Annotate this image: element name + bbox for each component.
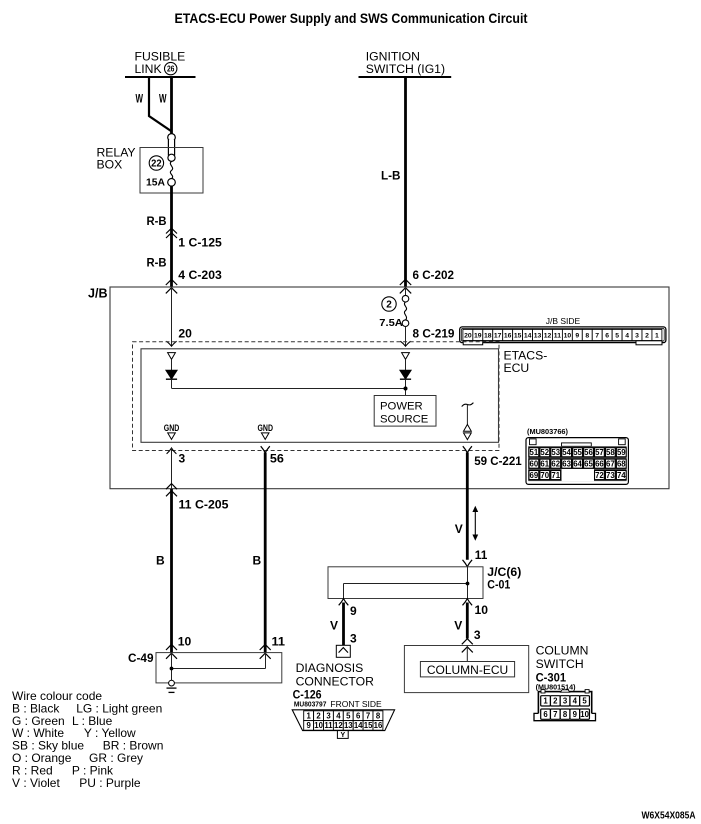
svg-text:8: 8 <box>585 333 589 340</box>
diagnosis connector pin grid row 2 <box>304 721 383 731</box>
wire diode2 down <box>405 379 407 395</box>
svg-text:B: B <box>253 554 262 568</box>
J/B box <box>110 287 669 489</box>
svg-text:10: 10 <box>475 603 489 617</box>
wire W left branch <box>149 78 171 131</box>
svg-text:59: 59 <box>617 448 626 457</box>
svg-text:4: 4 <box>625 333 629 340</box>
svg-text:11: 11 <box>324 721 333 730</box>
relay box label <box>97 146 136 172</box>
svg-text:73: 73 <box>606 471 615 480</box>
wire from relay box down to J/B <box>170 186 173 287</box>
svg-text:18: 18 <box>484 333 492 340</box>
fusible link bus bar <box>125 76 196 78</box>
ETACS-ECU label <box>504 349 548 375</box>
svg-text:26: 26 <box>167 65 175 74</box>
J/C pin 11 terminal cup <box>463 560 473 567</box>
svg-text:POWER: POWER <box>380 401 423 413</box>
svg-text:V: V <box>455 522 463 536</box>
J/C pin 9 exit cup <box>339 599 349 606</box>
svg-text:DIAGNOSIS: DIAGNOSIS <box>296 661 364 675</box>
connector MU803766 body <box>526 438 628 485</box>
fuse number 22 circled <box>149 156 163 170</box>
svg-text:67: 67 <box>606 460 615 469</box>
svg-text:3: 3 <box>326 711 331 720</box>
SWS comm line symbol <box>462 403 474 440</box>
svg-text:CONNECTOR: CONNECTOR <box>296 675 375 689</box>
connector C-203 chevrons at J/B edge <box>166 279 177 293</box>
wire colour code legend <box>12 689 163 790</box>
fusible link symbol middle circle <box>168 154 175 161</box>
wire W right (main) <box>170 78 173 134</box>
diagnosis connector trapezoid <box>292 710 394 731</box>
wire pin6 to fuse 2 inside J/B <box>405 287 407 296</box>
svg-text:4 C-203: 4 C-203 <box>178 268 222 282</box>
svg-text:V: V <box>454 618 462 632</box>
svg-text:10: 10 <box>314 721 323 730</box>
J/B side connector pin numbers <box>464 333 659 340</box>
connector MU803766 pin numbers <box>530 448 627 480</box>
svg-text:3: 3 <box>635 333 639 340</box>
diagnosis connector symbol <box>336 645 350 657</box>
C-49 entry chevrons pin 10 <box>166 644 177 658</box>
svg-text:16: 16 <box>374 721 383 730</box>
J/B side connector outline <box>460 327 666 345</box>
fusible link symbol parallel lines <box>168 140 174 156</box>
connector MU803766 pin row 2 <box>529 459 626 468</box>
svg-text:14: 14 <box>524 333 532 340</box>
svg-text:7.5A: 7.5A <box>379 317 403 329</box>
svg-text:16: 16 <box>504 333 512 340</box>
svg-text:20: 20 <box>464 333 472 340</box>
fusible link symbol top circle <box>168 134 176 142</box>
svg-text:52: 52 <box>540 448 549 457</box>
svg-text:56: 56 <box>584 448 593 457</box>
svg-text:COLUMN-ECU: COLUMN-ECU <box>427 663 508 677</box>
svg-text:4: 4 <box>336 711 341 720</box>
J/C pin 10 exit cup <box>463 599 473 606</box>
C-49 entry chevrons pin 11 <box>260 644 271 658</box>
pin 8 input triangle <box>402 353 410 360</box>
svg-text:62: 62 <box>551 460 560 469</box>
wire into column ecu <box>466 646 468 662</box>
svg-text:56: 56 <box>270 451 284 465</box>
wire fuse2 to pin 8 <box>405 327 407 346</box>
svg-text:51: 51 <box>530 448 539 457</box>
svg-text:6: 6 <box>356 711 361 720</box>
ignition wire down to J/B <box>404 78 407 287</box>
column ecu entry chevrons <box>462 639 473 653</box>
svg-text:11: 11 <box>272 635 286 649</box>
svg-text:BOX: BOX <box>97 158 123 172</box>
C-49 internal joining wire <box>172 668 266 670</box>
svg-text:ETACS-ECU Power Supply and SWS: ETACS-ECU Power Supply and SWS Communica… <box>175 11 528 26</box>
wire B left down to C-49 <box>170 489 173 653</box>
power source box <box>374 396 436 427</box>
fuse bottom circle <box>168 179 176 187</box>
svg-text:13: 13 <box>344 721 353 730</box>
svg-text:1: 1 <box>655 333 659 340</box>
svg-text:7: 7 <box>366 711 370 720</box>
svg-text:64: 64 <box>573 460 582 469</box>
svg-text:10: 10 <box>580 710 589 719</box>
svg-text:57: 57 <box>595 448 604 457</box>
wire to diode 2 <box>405 359 407 370</box>
connector C-125 chevrons <box>166 228 177 238</box>
diode D1 <box>166 370 177 379</box>
wire V to column ecu <box>466 603 469 639</box>
diode D2 <box>400 370 411 379</box>
connector MU803766 pin row 1 <box>529 448 626 457</box>
fusible link number 26 <box>165 62 177 74</box>
svg-text:3: 3 <box>563 697 568 706</box>
arrowhead into ECU (pin 8) <box>400 341 410 346</box>
svg-text:12: 12 <box>544 333 552 340</box>
svg-text:C-01: C-01 <box>487 577 510 591</box>
svg-text:17: 17 <box>494 333 502 340</box>
svg-text:ECU: ECU <box>504 361 530 375</box>
diagnosis connector key tab <box>337 731 348 739</box>
column ecu inner label box <box>420 662 514 677</box>
svg-text:5: 5 <box>615 333 619 340</box>
svg-text:6: 6 <box>543 710 548 719</box>
SWS bidirectional arrow <box>472 506 478 541</box>
svg-text:54: 54 <box>562 448 571 457</box>
ignition switch bus bar <box>359 76 452 78</box>
svg-text:53: 53 <box>551 448 560 457</box>
svg-text:SWITCH (IG1): SWITCH (IG1) <box>366 62 445 76</box>
pin 56 terminal cup <box>261 446 270 453</box>
svg-text:9: 9 <box>307 721 312 730</box>
C-49 internal wire right <box>265 653 267 669</box>
svg-text:9: 9 <box>575 333 579 340</box>
svg-text:V: V <box>330 618 338 632</box>
svg-text:58: 58 <box>606 448 615 457</box>
svg-text:8: 8 <box>563 710 568 719</box>
junction dot C-49 <box>170 667 174 671</box>
fusible link label <box>135 50 186 77</box>
svg-text:1: 1 <box>543 697 548 706</box>
pin 59 terminal cup <box>463 446 472 453</box>
svg-text:9: 9 <box>573 710 578 719</box>
svg-text:2: 2 <box>645 333 649 340</box>
svg-text:12: 12 <box>334 721 343 730</box>
svg-text:7: 7 <box>553 710 557 719</box>
svg-text:8: 8 <box>376 711 381 720</box>
C-49 internal wire left <box>171 653 173 681</box>
wire pin4 to ETACS pin 20 inside J/B <box>171 287 173 346</box>
diagnosis connector caption <box>296 661 375 689</box>
svg-text:15A: 15A <box>146 177 165 189</box>
connector C-301 cells row 1 <box>541 696 590 706</box>
svg-text:11 C-205: 11 C-205 <box>179 498 229 512</box>
C-49 box <box>156 653 282 683</box>
svg-text:B: B <box>156 554 165 568</box>
J/B side connector pin cells 20-1 <box>463 329 662 340</box>
pin 56 wire down to C-49 <box>264 453 267 653</box>
GND pin triangle 2 <box>261 433 269 440</box>
svg-text:72: 72 <box>595 471 604 480</box>
svg-text:71: 71 <box>551 471 560 480</box>
svg-text:5: 5 <box>582 697 587 706</box>
ground symbol <box>167 680 177 692</box>
svg-text:Y: Y <box>340 732 345 739</box>
J/C junction dot <box>466 582 470 586</box>
svg-text:8 C-219: 8 C-219 <box>413 326 455 340</box>
diagnosis connector pin numbers <box>307 711 383 730</box>
column switch caption <box>536 643 589 671</box>
svg-text:4: 4 <box>573 697 578 706</box>
svg-text:C-49: C-49 <box>128 651 154 665</box>
svg-text:14: 14 <box>354 721 363 730</box>
ignition switch label <box>366 50 445 77</box>
svg-text:74: 74 <box>617 471 626 480</box>
ETACS-ECU dashed boundary <box>133 342 500 451</box>
svg-text:3: 3 <box>350 631 357 645</box>
svg-text:MU803797: MU803797 <box>294 700 327 709</box>
svg-text:15: 15 <box>364 721 373 730</box>
fuse 2 bottom circle <box>402 320 409 327</box>
svg-text:19: 19 <box>474 333 482 340</box>
svg-text:L-B: L-B <box>381 169 401 183</box>
svg-text:6 C-202: 6 C-202 <box>413 268 455 282</box>
svg-text:W6X54X085A: W6X54X085A <box>642 810 696 822</box>
connector MU803766 pin row 3 <box>529 471 626 480</box>
svg-text:10: 10 <box>178 635 192 649</box>
fuse 2 wavy element <box>404 302 406 320</box>
svg-text:65: 65 <box>584 460 593 469</box>
J/C internal horizontal wire <box>344 583 468 585</box>
svg-text:61: 61 <box>540 460 549 469</box>
svg-text:W: W <box>136 92 144 106</box>
bus joining diodes <box>172 388 406 390</box>
svg-text:GND: GND <box>258 423 274 434</box>
svg-text:6: 6 <box>605 333 609 340</box>
svg-text:(MU803766): (MU803766) <box>527 427 568 436</box>
svg-text:20: 20 <box>178 327 192 341</box>
pin 3 wire with up arrow <box>167 448 177 489</box>
svg-text:59 C-221: 59 C-221 <box>474 454 522 468</box>
diagnosis connector pin grid row 1 <box>304 711 383 721</box>
svg-text:LINK: LINK <box>135 62 162 76</box>
svg-text:1: 1 <box>307 711 312 720</box>
column ecu outer box <box>404 646 528 693</box>
fuse element wavy line <box>170 161 172 178</box>
svg-text:3: 3 <box>474 628 481 642</box>
svg-text:69: 69 <box>530 471 539 480</box>
connector C-301 numbers <box>543 697 589 719</box>
svg-text:15: 15 <box>514 333 522 340</box>
J/C(6) box <box>328 567 483 599</box>
svg-text:9: 9 <box>350 604 357 618</box>
svg-text:60: 60 <box>530 460 539 469</box>
svg-text:SWITCH: SWITCH <box>536 657 584 671</box>
svg-text:R-B: R-B <box>147 214 167 228</box>
svg-text:66: 66 <box>595 460 604 469</box>
pin 20 input triangle <box>168 353 176 360</box>
pin 59 wire down <box>466 453 469 560</box>
connector C-205 chevrons at J/B bottom <box>166 484 177 497</box>
svg-text:J/B: J/B <box>88 286 108 300</box>
ETACS-ECU inner box <box>141 349 499 443</box>
connector C-301 body <box>534 690 596 721</box>
svg-text:10: 10 <box>564 333 572 340</box>
svg-text:11: 11 <box>554 333 561 340</box>
svg-text:R-B: R-B <box>147 256 167 270</box>
connector C-202 chevrons at J/B edge <box>400 279 411 293</box>
fuse 2 top circle <box>402 295 409 302</box>
svg-text:2: 2 <box>553 697 558 706</box>
svg-text:68: 68 <box>617 460 626 469</box>
svg-text:11: 11 <box>475 548 488 562</box>
svg-text:SOURCE: SOURCE <box>380 413 429 425</box>
wire to diode 1 <box>171 359 173 370</box>
svg-text:7: 7 <box>595 333 599 340</box>
svg-text:22: 22 <box>151 159 162 170</box>
wire diode1 down <box>171 379 173 388</box>
svg-text:2: 2 <box>386 300 392 311</box>
svg-text:COLUMN: COLUMN <box>536 643 589 657</box>
svg-text:13: 13 <box>534 333 542 340</box>
wire V to diagnosis connector <box>342 603 345 646</box>
svg-text:3: 3 <box>179 451 186 465</box>
svg-text:W: W <box>159 92 167 106</box>
svg-text:2: 2 <box>316 711 321 720</box>
J/C internal vertical wire right <box>467 567 469 599</box>
svg-text:5: 5 <box>346 711 351 720</box>
J/C internal vertical wire left <box>343 584 345 599</box>
junction dot <box>404 387 408 391</box>
svg-text:55: 55 <box>573 448 582 457</box>
svg-text:1 C-125: 1 C-125 <box>178 236 222 250</box>
svg-text:70: 70 <box>540 471 549 480</box>
fuse 2 circled number <box>382 297 396 311</box>
svg-text:63: 63 <box>562 460 571 469</box>
svg-text:FRONT SIDE: FRONT SIDE <box>330 699 382 709</box>
GND pin triangle 1 <box>168 433 176 440</box>
connector C-301 cells row 2 <box>541 709 590 719</box>
arrowhead into ECU (pin 20) <box>166 341 176 346</box>
relay box outline <box>140 148 203 194</box>
svg-text:GND: GND <box>164 423 180 434</box>
svg-text:J/B SIDE: J/B SIDE <box>546 316 581 326</box>
